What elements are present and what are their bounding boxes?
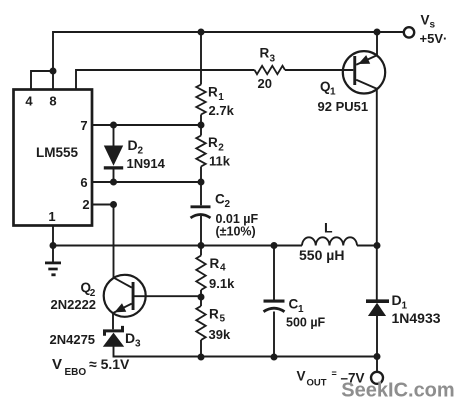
svg-text:1: 1 — [298, 304, 304, 315]
svg-text:C: C — [289, 297, 299, 312]
svg-text:D: D — [392, 292, 402, 308]
svg-text:7: 7 — [80, 118, 87, 133]
svg-text:6: 6 — [80, 175, 87, 190]
svg-text:20: 20 — [258, 76, 272, 91]
svg-text:Q: Q — [320, 79, 331, 94]
svg-text:1: 1 — [330, 87, 336, 98]
svg-text:s: s — [430, 20, 436, 31]
svg-text:SeekIC.com: SeekIC.com — [341, 380, 454, 402]
svg-text:4: 4 — [220, 263, 226, 274]
svg-text:D: D — [128, 137, 138, 153]
svg-text:R: R — [260, 46, 270, 61]
svg-text:2N2222: 2N2222 — [51, 297, 97, 312]
svg-text:OUT: OUT — [307, 378, 327, 389]
svg-text:L: L — [324, 220, 333, 236]
svg-text:9.1k: 9.1k — [209, 276, 235, 291]
svg-text:1: 1 — [48, 209, 55, 224]
svg-text:550 µH: 550 µH — [299, 247, 344, 263]
svg-text:D: D — [125, 330, 135, 346]
svg-text:C: C — [215, 192, 225, 207]
svg-text:2: 2 — [82, 197, 89, 212]
svg-text:V: V — [52, 356, 62, 373]
svg-text:39k: 39k — [209, 327, 231, 342]
svg-text:LM555: LM555 — [36, 145, 79, 160]
svg-text:5: 5 — [220, 314, 226, 325]
svg-text:2.7k: 2.7k — [209, 103, 235, 118]
svg-text:8: 8 — [49, 94, 56, 109]
svg-text:2: 2 — [225, 199, 231, 210]
svg-text:+5V·: +5V· — [420, 31, 448, 46]
svg-text:V: V — [297, 369, 306, 384]
svg-text:(±10%): (±10%) — [216, 225, 256, 239]
svg-text:3: 3 — [135, 339, 141, 350]
svg-text:1N4933: 1N4933 — [392, 310, 441, 326]
svg-text:2N4275: 2N4275 — [50, 332, 96, 347]
svg-text:500 µF: 500 µF — [286, 316, 326, 330]
svg-text:EBO: EBO — [65, 367, 87, 378]
svg-text:3: 3 — [270, 54, 276, 65]
svg-text:R: R — [210, 256, 220, 271]
svg-text:≈ 5.1V: ≈ 5.1V — [89, 356, 130, 372]
svg-text:R: R — [208, 85, 218, 100]
svg-text:=: = — [332, 369, 337, 379]
svg-text:R: R — [209, 307, 219, 322]
svg-text:1: 1 — [218, 92, 224, 103]
svg-text:11k: 11k — [209, 154, 231, 169]
svg-text:4: 4 — [25, 94, 33, 109]
svg-text:92 PU51: 92 PU51 — [318, 99, 369, 114]
svg-text:V: V — [421, 13, 430, 28]
svg-text:2: 2 — [218, 143, 224, 154]
svg-text:R: R — [208, 135, 218, 150]
svg-text:1N914: 1N914 — [127, 156, 166, 171]
